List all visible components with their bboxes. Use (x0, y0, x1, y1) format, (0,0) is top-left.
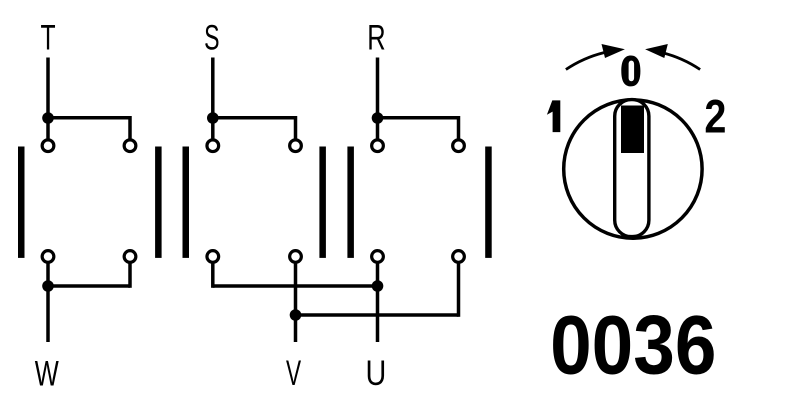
arrowhead right (645, 44, 668, 58)
wire V lead vertical (294, 264, 298, 343)
wire pole3 top right drop (457, 116, 461, 139)
terminal pole3 top-right (453, 140, 465, 152)
junction node W (42, 280, 54, 292)
position label 0 (621, 56, 640, 87)
contact bar pair1 left (155, 147, 162, 258)
wire W lead vertical (46, 264, 50, 343)
wire pole3 top horizontal (378, 116, 459, 120)
terminal pole2 bottom-left (207, 251, 219, 263)
wire pole2 left drop to link (211, 264, 215, 288)
terminal pole2 top-right (290, 140, 302, 152)
junction node V (290, 309, 302, 321)
arrow arc left (566, 53, 604, 70)
svg-text:S: S (204, 19, 219, 58)
contact bar right outer (485, 147, 492, 258)
svg-text:0036: 0036 (550, 298, 716, 391)
wire pole3 right drop to link (457, 264, 461, 317)
junction pole1 top (42, 112, 54, 124)
wire R lead vertical (376, 58, 380, 140)
svg-text:U: U (366, 354, 387, 393)
contact bar pair2 right (347, 147, 354, 258)
terminal pole1 top-right (124, 140, 136, 152)
terminal pole1 bottom-right (124, 251, 136, 263)
terminal pole2 bottom-right (290, 251, 302, 263)
wire pole1 bottom right drop (128, 264, 132, 288)
junction pole3 top (372, 112, 384, 124)
wire pole1 bottom horizontal (48, 284, 130, 288)
wire S lead vertical (211, 58, 215, 140)
terminal pole3 top-left (372, 140, 384, 152)
wire pole1 top right drop (128, 116, 132, 139)
rotary knob body circle (564, 100, 702, 238)
contact bar pair1 right (183, 147, 190, 258)
svg-text:W: W (35, 355, 59, 394)
contact bar left outer (18, 147, 25, 258)
terminal pole1 top-left (42, 140, 54, 152)
wire pole2 top right drop (294, 116, 298, 139)
junction node U (372, 280, 384, 292)
terminal pole2 top-left (207, 140, 219, 152)
svg-text:V: V (286, 354, 302, 393)
arrowhead left (602, 44, 625, 58)
position label 1 (547, 100, 560, 132)
wire pole2 top horizontal (213, 116, 296, 120)
wire T lead vertical (46, 58, 50, 140)
svg-text:T: T (40, 19, 55, 58)
terminal pole3 bottom-right (453, 251, 465, 263)
rotary knob handle pill (615, 100, 649, 237)
wire link pole3-right to V (296, 313, 459, 317)
arrow arc right (662, 53, 700, 70)
svg-text:2: 2 (704, 91, 726, 143)
svg-text:R: R (367, 19, 385, 58)
wire link pole2-left to U (213, 284, 378, 288)
contact bar pair2 left (319, 147, 326, 258)
wire pole1 top horizontal (48, 116, 130, 120)
wire U lead vertical (376, 264, 380, 343)
terminal pole3 bottom-left (372, 251, 384, 263)
terminal pole1 bottom-left (42, 251, 54, 263)
junction pole2 top (207, 112, 219, 124)
rotary knob pointer black mark (621, 106, 644, 154)
